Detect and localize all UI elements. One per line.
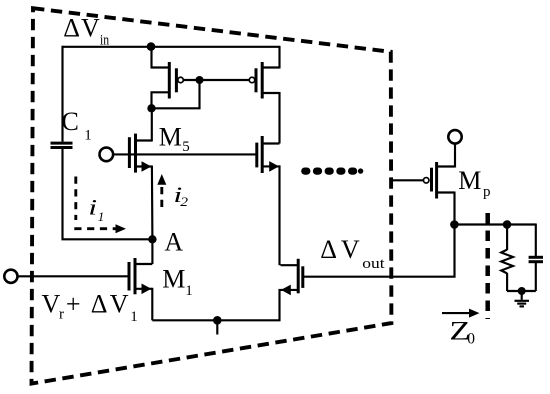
current arrow i2 (157, 174, 166, 207)
svg-text:5: 5 (182, 139, 190, 155)
load resistor (501, 225, 513, 292)
transistor M5 (100, 107, 257, 239)
junction dot output node (450, 220, 459, 229)
svg-text:0: 0 (467, 330, 475, 347)
junction dot on Vin rail (147, 42, 156, 51)
wire C1 bottom down and right to node A (63, 149, 153, 240)
svg-text:1: 1 (84, 127, 92, 143)
svg-text:M: M (162, 265, 185, 294)
wire output to load (455, 223, 536, 225)
svg-text:2: 2 (180, 195, 188, 209)
svg-text:+: + (66, 289, 81, 318)
pmos mirror right transistor (200, 46, 280, 144)
svg-text:1: 1 (185, 283, 193, 299)
second stage nmos (280, 259, 303, 322)
capacitor C1 (51, 143, 73, 147)
Z0 arrow (442, 309, 480, 318)
svg-text:M: M (159, 122, 182, 151)
svg-text:1: 1 (130, 309, 138, 325)
amplifier boundary dashed trapezoid (32, 8, 392, 383)
svg-text:C: C (62, 107, 79, 136)
wire tail stub (216, 320, 218, 334)
wire load bottom (507, 290, 536, 292)
pmos mirror left transistor (151, 47, 200, 109)
omitted stages dots (301, 168, 363, 175)
junction dot tail with stub (213, 316, 222, 325)
wire Vin top rail (63, 46, 280, 48)
Z0 measurement dashed line (485, 213, 490, 319)
wire left branch down to C1 (61, 46, 63, 142)
node A junction dot (148, 235, 156, 243)
svg-text:i: i (88, 195, 97, 219)
svg-text:V: V (42, 289, 61, 318)
ground (515, 291, 530, 306)
junction dot load bottom (518, 287, 526, 295)
svg-text:r: r (59, 307, 64, 323)
wire diode connection gate to drain (152, 80, 200, 108)
svg-text:V: V (110, 289, 129, 318)
svg-text:M: M (458, 166, 481, 195)
svg-text:p: p (483, 184, 491, 200)
diff pair right nmos (257, 136, 280, 265)
svg-text:out: out (362, 255, 385, 272)
svg-text:A: A (164, 227, 183, 256)
svg-text:in: in (100, 31, 109, 48)
pass transistor Mp (392, 130, 462, 224)
svg-text:Δ: Δ (63, 13, 80, 42)
svg-text:Δ: Δ (91, 289, 108, 318)
junction dot mirror drain node (147, 104, 155, 112)
junction dot load top (503, 220, 512, 229)
wire feedback dVout (303, 225, 455, 277)
current arrow i1 (74, 177, 126, 234)
load capacitor (529, 224, 543, 292)
wire tail rail (152, 319, 279, 321)
svg-text:Δ: Δ (320, 235, 337, 264)
svg-text:V: V (341, 235, 360, 264)
svg-text:V: V (81, 13, 100, 42)
svg-text:1: 1 (98, 209, 105, 224)
transistor M1 (4, 238, 152, 320)
junction dot pmos mirror gate node (196, 76, 204, 84)
